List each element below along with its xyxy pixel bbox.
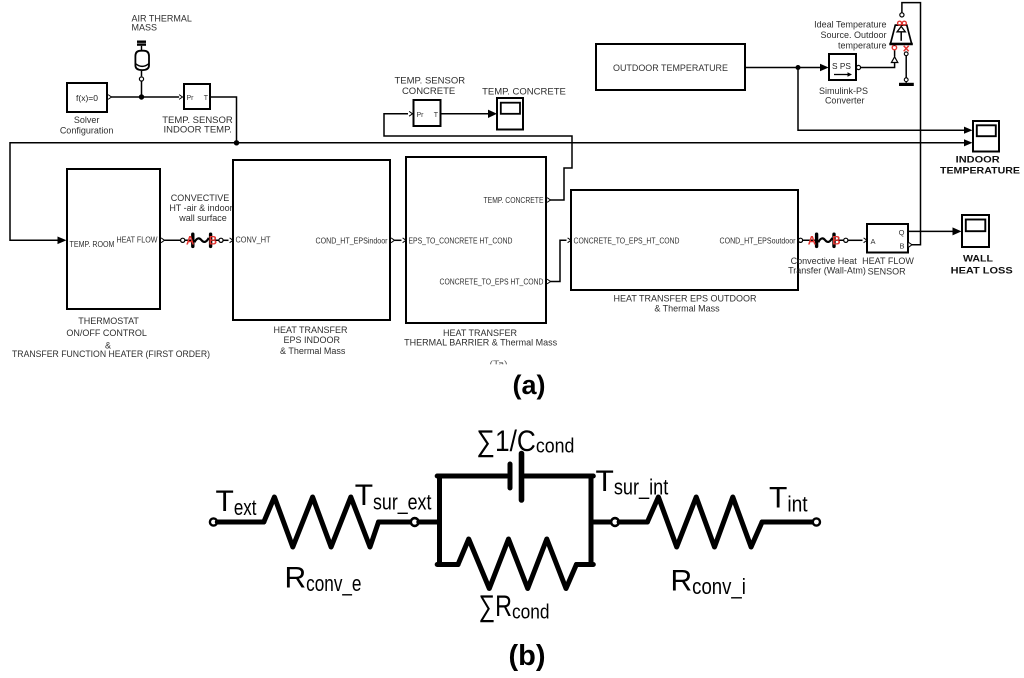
svg-text:T: T: [204, 95, 209, 102]
port arrow sensor Pr input: [179, 95, 182, 100]
wire node to R_conv_i: [619, 520, 647, 525]
svg-text:CONCRETE_TO_EPS_HT_COND: CONCRETE_TO_EPS_HT_COND: [574, 236, 680, 245]
wire conv1 to eps indoor: [223, 239, 229, 241]
svg-text:B: B: [832, 236, 840, 248]
label TEMP. SENSOR CONCRETE: [395, 76, 466, 97]
svg-text:TEMP. CONCRETE: TEMP. CONCRETE: [482, 87, 566, 98]
svg-text:INDOOR TEMP.: INDOOR TEMP.: [164, 125, 232, 136]
svg-text:INDOOR: INDOOR: [956, 155, 1000, 166]
svg-text:B: B: [209, 236, 217, 248]
wire branch to indoor scope upper input: [798, 68, 966, 131]
svg-text:Rconv_e: Rconv_e: [285, 561, 362, 595]
svg-text:MASS: MASS: [132, 22, 158, 32]
port arrow eps indoor output: [391, 238, 394, 243]
label HEAT TRANSFER EPS OUTDOOR: [613, 293, 757, 313]
arrowhead into wall heat loss scope: [953, 227, 962, 235]
svg-text:EPS_TO_CONCRETE HT_COND: EPS_TO_CONCRETE HT_COND: [409, 236, 513, 245]
port arrow conv_ht input: [230, 238, 233, 243]
wire T output down to bus: [210, 97, 237, 143]
svg-text:WALL: WALL: [963, 253, 993, 264]
port arrow solver output: [108, 95, 111, 100]
wire T_ext to R_conv_e: [217, 520, 263, 525]
capacitor C_cond: [508, 464, 513, 488]
wire eps indoor to barrier: [394, 239, 402, 241]
convective heat transfer element E2: [803, 234, 844, 247]
svg-text:TRANSFER FUNCTION HEATER (FIRS: TRANSFER FUNCTION HEATER (FIRST ORDER): [12, 349, 210, 359]
label TEMP. SENSOR INDOOR TEMP.: [162, 115, 233, 136]
port circle ground stub: [904, 78, 908, 82]
block temp sensor concrete (Pr T): [414, 100, 441, 126]
port arrow eps outdoor input: [568, 238, 571, 243]
svg-text:HEAT FLOW: HEAT FLOW: [862, 256, 914, 266]
node T_sur_int: [611, 518, 619, 526]
svg-text:A: A: [186, 236, 194, 248]
svg-text:HEAT FLOW: HEAT FLOW: [117, 236, 158, 245]
block solver configuration: [67, 83, 107, 112]
label HEAT TRANSFER EPS INDOOR: [273, 325, 348, 356]
label THERMOSTAT ON/OFF CONTROL: [12, 316, 210, 359]
svg-text:Solver: Solver: [74, 115, 100, 125]
red ring source port A: [892, 45, 896, 49]
svg-text:T: T: [434, 112, 439, 119]
svg-text:Ideal Temperature: Ideal Temperature: [814, 20, 886, 30]
wire converter to source: [861, 63, 895, 68]
label INDOOR TEMPERATURE: [940, 155, 1020, 177]
svg-text:Tsur_int: Tsur_int: [596, 465, 669, 500]
svg-text:∑Rcond: ∑Rcond: [479, 590, 550, 624]
wire R_conv_i to terminal T_int: [762, 520, 813, 525]
svg-text:temperature: temperature: [838, 41, 887, 51]
wire R_conv_e to node T_sur_ext: [379, 520, 411, 525]
wire solver to sensor: [109, 96, 180, 98]
node junction J2: [234, 140, 239, 145]
svg-text:∑1/Ccond: ∑1/Ccond: [476, 425, 574, 458]
scope TEMP. CONCRETE: [497, 98, 523, 130]
svg-text:HEAT TRANSFER EPS OUTDOOR: HEAT TRANSFER EPS OUTDOOR: [613, 293, 757, 303]
svg-text:wall surface: wall surface: [178, 213, 227, 223]
block simulink-ps converter: [829, 54, 856, 80]
wire source B to heat flow sensor B: [902, 3, 921, 245]
block heat transfer eps indoor: [233, 160, 390, 320]
resistor R_cond: [458, 539, 576, 589]
wire heat flow to convective element: [164, 239, 181, 241]
svg-text:SENSOR: SENSOR: [868, 266, 907, 276]
port circle conv2 right: [844, 238, 848, 242]
port circle conv1 right: [219, 238, 223, 242]
terminal T_int: [813, 518, 820, 525]
resistor R_conv_i: [647, 497, 762, 547]
svg-text:HEAT TRANSFER: HEAT TRANSFER: [443, 328, 518, 338]
svg-text:COND_HT_EPSindoor: COND_HT_EPSindoor: [316, 236, 388, 245]
arrowhead into thermostat: [58, 237, 67, 245]
ps arrow marker up: [891, 57, 897, 63]
svg-text:TEMP. SENSOR: TEMP. SENSOR: [395, 76, 466, 87]
resistor R_conv_e: [264, 497, 379, 547]
wire thermal mass to bus: [141, 81, 143, 97]
label Ideal Temperature Source. Outdoor temperature: [814, 20, 886, 51]
svg-text:HT -air & indoor: HT -air & indoor: [169, 203, 232, 213]
svg-text:CONCRETE_TO_EPS HT_COND: CONCRETE_TO_EPS HT_COND: [440, 278, 544, 287]
port circle conv1 left: [181, 238, 185, 242]
scope INDOOR TEMPERATURE: [973, 121, 999, 152]
port arrow barrier input: [403, 238, 406, 243]
wire concrete sensor to scope: [441, 113, 488, 115]
label Convective Heat Transfer (Wall-Atm): [788, 256, 866, 276]
block outdoor temperature: [596, 44, 745, 90]
arrowhead into indoor scope upper: [964, 127, 973, 134]
svg-text:Tsur_ext: Tsur_ext: [355, 479, 432, 515]
svg-text:Source. Outdoor: Source. Outdoor: [820, 30, 886, 40]
ground reference bar: [899, 83, 914, 86]
block temp sensor indoor (Pr T): [184, 84, 210, 109]
label Simulink-PS Converter: [819, 86, 868, 106]
svg-text:CONVECTIVE: CONVECTIVE: [171, 193, 230, 203]
wire ps arrow to source left leg: [894, 50, 896, 57]
parallel block right rail: [589, 476, 594, 565]
svg-text:CONCRETE: CONCRETE: [402, 86, 455, 97]
wire conv2 to heat flow sensor: [848, 239, 863, 241]
scope WALL HEAT LOSS: [962, 215, 989, 247]
svg-text:Converter: Converter: [825, 96, 865, 106]
svg-text:Rconv_i: Rconv_i: [671, 565, 746, 599]
svg-text:TEMP. CONCRETE: TEMP. CONCRETE: [484, 196, 544, 205]
wire temp concrete routing: [384, 114, 572, 200]
arrowhead into temp concrete scope: [488, 110, 497, 118]
port circle source top B: [900, 13, 904, 17]
wire bottom branch left: [437, 562, 458, 567]
svg-text:Pr: Pr: [417, 112, 425, 119]
block heat transfer eps outdoor: [571, 190, 798, 290]
wire top branch left: [437, 474, 507, 479]
port circle converter output: [856, 65, 860, 69]
svg-text:Configuration: Configuration: [60, 125, 114, 135]
label HEAT TRANSFER THERMAL BARRIER: [404, 328, 558, 348]
svg-text:THERMOSTAT: THERMOSTAT: [78, 316, 139, 326]
svg-text:CONV_HT: CONV_HT: [236, 236, 271, 245]
node junction J1: [139, 94, 144, 99]
port arrow sensor A input: [864, 238, 867, 243]
node junction J3: [796, 65, 801, 70]
block heat transfer thermal barrier: [406, 157, 546, 323]
parallel block left rail: [437, 476, 442, 565]
thermal mass TM1: [135, 42, 149, 70]
svg-text:B: B: [899, 242, 904, 251]
port arrow thermostat heat flow output: [161, 238, 164, 243]
svg-text:COND_HT_EPSoutdoor: COND_HT_EPSoutdoor: [720, 236, 796, 245]
wire left leg stub: [893, 44, 895, 46]
arrowhead into converter: [820, 64, 829, 72]
wire top branch right: [525, 474, 594, 479]
label WALL HEAT LOSS: [951, 253, 1013, 276]
svg-text:(b): (b): [508, 640, 545, 672]
wire thermal mass stem: [141, 71, 143, 77]
port arrow sensor B: [909, 242, 912, 247]
svg-text:Text: Text: [216, 485, 257, 520]
ideal temperature source S1: [889, 25, 913, 44]
convective heat transfer element E1: [185, 234, 219, 247]
label AIR THERMAL MASS: [132, 14, 192, 33]
svg-text:Pr: Pr: [187, 95, 195, 102]
svg-text:& Thermal Mass: & Thermal Mass: [280, 346, 346, 356]
terminal T_ext: [210, 518, 217, 525]
wire outdoor temp to converter: [745, 67, 820, 69]
arrowhead bus into indoor scope: [964, 139, 973, 146]
svg-text:THERMAL BARRIER & Thermal Mass: THERMAL BARRIER & Thermal Mass: [404, 338, 558, 348]
svg-text:TEMP. ROOM: TEMP. ROOM: [70, 240, 115, 249]
svg-text:OUTDOOR TEMPERATURE: OUTDOOR TEMPERATURE: [613, 63, 728, 74]
block heat flow sensor: [867, 224, 908, 253]
port circle thermal mass: [139, 77, 143, 81]
wire main bus to indoor scope: [10, 143, 966, 241]
svg-text:Q: Q: [899, 228, 905, 237]
svg-text:& Thermal Mass: & Thermal Mass: [654, 304, 720, 314]
red rings source top ports: [898, 21, 902, 25]
wire right rail to node T_sur_int: [591, 520, 611, 525]
svg-text:S PS: S PS: [832, 61, 851, 71]
port arrow barrier temp concrete output: [547, 198, 550, 203]
svg-text:(a): (a): [513, 370, 546, 400]
svg-text:A: A: [808, 236, 816, 248]
wire node to parallel block: [419, 520, 440, 525]
svg-text:Tint: Tint: [769, 481, 808, 516]
svg-text:Transfer (Wall-Atm): Transfer (Wall-Atm): [788, 265, 866, 275]
svg-text:HEAT TRANSFER: HEAT TRANSFER: [273, 325, 348, 335]
svg-text:EPS INDOOR: EPS INDOOR: [283, 335, 340, 345]
port arrow concrete sensor Pr input: [409, 111, 412, 116]
svg-text:HEAT LOSS: HEAT LOSS: [951, 266, 1013, 277]
svg-text:ON/OFF CONTROL: ON/OFF CONTROL: [66, 328, 147, 338]
label HEAT FLOW SENSOR: [862, 256, 914, 277]
wire Q output to wall heat loss scope: [908, 230, 953, 232]
svg-text:Convective Heat: Convective Heat: [791, 256, 858, 266]
partial text (Ta) fragment: [486, 360, 512, 371]
wire right leg to ground: [905, 56, 907, 78]
red x source right leg: [904, 46, 909, 51]
svg-text:f(x)=0: f(x)=0: [76, 93, 98, 103]
port arrow barrier concrete_to_eps output: [547, 279, 550, 284]
block thermostat subsystem: [67, 169, 160, 309]
node T_sur_ext: [411, 518, 419, 526]
port circle right leg upper: [904, 52, 908, 56]
svg-text:TEMPERATURE: TEMPERATURE: [940, 165, 1020, 176]
label CONVECTIVE HT air and indoor wall surface: [169, 193, 232, 223]
svg-text:Simulink-PS: Simulink-PS: [819, 86, 868, 96]
svg-text:A: A: [871, 237, 876, 246]
port circle conv2 left: [798, 238, 802, 242]
wire barrier to eps outdoor: [550, 240, 567, 281]
wire bottom branch right: [576, 562, 593, 567]
label Solver Configuration: [60, 115, 114, 135]
